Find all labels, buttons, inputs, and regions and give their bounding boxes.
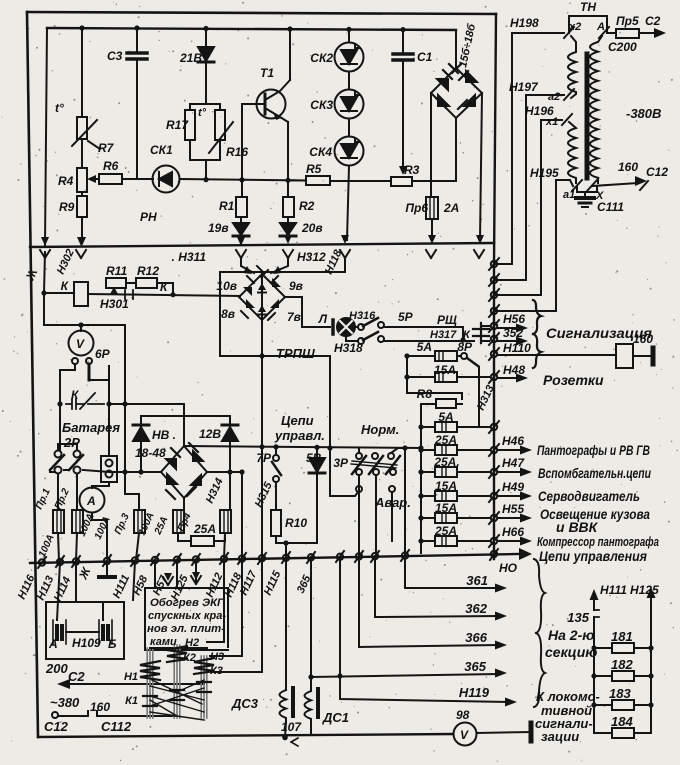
ТРПШ bridge diamond xyxy=(239,274,285,320)
wire H196 xyxy=(494,120,562,295)
lamp bar xyxy=(331,320,335,334)
svg-text:R2: R2 xyxy=(299,199,315,213)
svg-text:ками: ками xyxy=(150,636,177,648)
svg-text:25А: 25А xyxy=(434,433,457,447)
svg-text:СК2: СК2 xyxy=(310,51,333,65)
svg-text:Н301: Н301 xyxy=(100,297,129,311)
svg-text:Т1: Т1 xyxy=(260,66,274,80)
svg-text:Н195: Н195 xyxy=(530,166,559,180)
diode 20B xyxy=(287,217,289,223)
svg-text:Н3: Н3 xyxy=(210,651,224,663)
svg-text:5А: 5А xyxy=(438,410,453,424)
thyristor CK4 xyxy=(335,137,364,166)
svg-text:15А: 15А xyxy=(434,363,456,377)
svg-text:А: А xyxy=(48,637,58,651)
switch 6P below voltmeter xyxy=(72,358,78,364)
svg-text:Пр6: Пр6 xyxy=(405,201,428,215)
brace На 2-ю секцию xyxy=(534,559,545,707)
transformer TH left winding x2-a2 xyxy=(568,36,576,98)
arrow head Цепи управления xyxy=(519,548,532,560)
fuse Пр2 xyxy=(72,510,83,533)
wire HB right vertex row xyxy=(207,471,242,473)
svg-text:15А: 15А xyxy=(435,479,457,493)
resistor R4 xyxy=(77,168,87,192)
switch H316 lower xyxy=(346,336,358,341)
heater box Обогрев xyxy=(145,588,228,650)
switch Норм bank xyxy=(356,453,362,459)
ammeter A xyxy=(92,482,109,488)
switch K battery xyxy=(66,393,104,409)
svg-text:С12: С12 xyxy=(44,719,69,734)
capacitor C3 xyxy=(136,28,138,51)
wire 361 row xyxy=(405,556,498,588)
svg-text:Норм.: Норм. xyxy=(361,422,399,437)
svg-text:15А: 15А xyxy=(435,501,457,515)
fuse 15A row5 xyxy=(421,517,435,519)
wire bridge right down xyxy=(480,93,482,240)
svg-text:Н56: Н56 xyxy=(503,312,525,326)
diode HB xyxy=(141,415,230,417)
wire H119 row xyxy=(340,557,508,702)
svg-text:Н49: Н49 xyxy=(502,480,524,494)
brace Сигнализация xyxy=(533,300,541,368)
fuse 25A row3 xyxy=(421,471,435,473)
terminal a1 xyxy=(572,180,582,191)
ground C111 xyxy=(576,196,594,200)
svg-text:V: V xyxy=(76,337,85,351)
wire R6 to CK1 xyxy=(122,178,153,180)
svg-text:25А.: 25А. xyxy=(433,455,459,469)
resistor R7 thermistor xyxy=(77,117,87,139)
terminal C12 xyxy=(52,712,58,718)
svg-text:С200: С200 xyxy=(608,40,637,54)
svg-text:6Р: 6Р xyxy=(95,347,111,361)
svg-text:R11: R11 xyxy=(106,264,127,278)
svg-text:К1: К1 xyxy=(125,695,138,707)
wire H112 drop xyxy=(207,559,224,642)
svg-text:98: 98 xyxy=(456,708,470,722)
fuse 25A horizontal xyxy=(191,536,214,546)
svg-text:R16: R16 xyxy=(226,145,248,159)
wire K row to HB box xyxy=(109,404,184,416)
wire block top xyxy=(47,28,456,30)
svg-text:R3: R3 xyxy=(404,163,420,177)
fuse Пр1 xyxy=(53,510,64,533)
resistor R12 xyxy=(136,278,157,288)
winding bar K3 xyxy=(201,656,207,718)
svg-text:5В: 5В xyxy=(306,451,322,465)
wire frame left (Ж) xyxy=(27,12,38,737)
svg-text:R8: R8 xyxy=(417,387,433,401)
svg-text:182: 182 xyxy=(611,657,633,672)
resistor 181 xyxy=(594,647,651,649)
resistor ladder verticals H111 H125 xyxy=(594,595,651,733)
wire x407 down xyxy=(407,356,462,399)
Y connectors heater xyxy=(163,576,201,585)
svg-text:Н317: Н317 xyxy=(430,329,457,341)
ground Ж at bus xyxy=(106,561,108,576)
lamp Л signal xyxy=(337,318,355,336)
connector slashes on main bottom bus xyxy=(38,549,498,568)
bridge rectifier PH diamond xyxy=(431,68,482,118)
svg-text:С12: С12 xyxy=(646,165,668,179)
wire frame top xyxy=(27,12,496,14)
svg-text:R5: R5 xyxy=(306,162,322,176)
svg-text:5Р: 5Р xyxy=(398,310,414,324)
svg-text:9в: 9в xyxy=(289,279,303,293)
coupling crossing lines xyxy=(150,680,204,720)
svg-text:R7: R7 xyxy=(98,141,115,155)
svg-text:2Р: 2Р xyxy=(63,435,80,450)
coil ДС1 xyxy=(305,691,312,723)
svg-text:Н198: Н198 xyxy=(510,16,539,30)
wires CK chain xyxy=(347,29,349,240)
box 160 xyxy=(616,344,633,368)
svg-text:и ВВК: и ВВК xyxy=(556,519,599,535)
svg-text:х2: х2 xyxy=(568,21,581,33)
bridge diodes xyxy=(437,71,477,106)
svg-text:366: 366 xyxy=(465,630,487,645)
diode 12B xyxy=(222,427,238,441)
transistor T1 xyxy=(257,90,286,119)
svg-text:ДС3: ДС3 xyxy=(231,696,259,711)
coil ДС3 xyxy=(280,690,287,722)
wire block left xyxy=(45,28,47,245)
svg-text:Н47: Н47 xyxy=(502,456,525,470)
wire bridge bottom to R3 xyxy=(455,118,457,181)
resistor R11 potentiometer xyxy=(106,278,126,288)
arrows H46 H47 H49 H55 H66 xyxy=(498,449,523,451)
svg-text:К2: К2 xyxy=(183,652,196,664)
svg-text:Н312: Н312 xyxy=(297,250,326,264)
voltmeter V bottom xyxy=(454,723,477,746)
svg-text:365: 365 xyxy=(464,659,486,674)
wire HB bottom vertex xyxy=(183,498,185,511)
arrow wiper into R4 xyxy=(91,178,99,180)
arrow C2 xyxy=(66,683,204,685)
wire ТРПШ left loop xyxy=(220,258,345,356)
fuse 15A row4 xyxy=(421,495,435,497)
winding bar K2 xyxy=(174,645,180,718)
R17 R16 parallel pair xyxy=(190,104,220,180)
svg-text:СК4: СК4 xyxy=(309,145,332,159)
wire T1 collector xyxy=(289,29,291,80)
svg-text:~380: ~380 xyxy=(50,695,80,710)
resistor 183 xyxy=(594,704,651,706)
wire bus H313 right xyxy=(494,14,496,559)
svg-text:. Н311: . Н311 xyxy=(172,250,207,264)
svg-text:Н316: Н316 xyxy=(349,310,376,322)
diode 19B xyxy=(240,217,242,223)
battery box xyxy=(46,602,124,659)
svg-text:361: 361 xyxy=(466,573,488,588)
svg-text:160: 160 xyxy=(633,332,653,346)
svg-text:Н66: Н66 xyxy=(502,525,524,539)
fuse 5A row1 xyxy=(421,426,435,428)
wires into battery box xyxy=(57,561,103,620)
wire CK1 right xyxy=(180,179,307,181)
svg-text:а2: а2 xyxy=(548,91,560,103)
terminal bar end xyxy=(529,723,534,741)
fuse Пр5 xyxy=(607,32,616,34)
svg-text:Л: Л xyxy=(318,312,328,326)
transformer TH terminal box xyxy=(569,16,607,33)
svg-text:х1: х1 xyxy=(545,116,558,128)
svg-text:R1: R1 xyxy=(219,199,235,213)
svg-text:Н119: Н119 xyxy=(459,685,490,700)
labels heater box xyxy=(147,597,226,648)
svg-text:спускных кра-: спускных кра- xyxy=(148,610,226,622)
svg-text:С1: С1 xyxy=(417,50,433,64)
svg-text:25А: 25А xyxy=(193,522,216,536)
wire bridge left to fuse xyxy=(430,93,432,197)
svg-text:160: 160 xyxy=(618,160,638,174)
resistor R10 xyxy=(271,510,281,536)
switch Авар contacts xyxy=(356,486,362,492)
svg-text:К локомо-: К локомо- xyxy=(536,689,600,704)
resistor R9 xyxy=(81,192,83,196)
svg-text:-380В: -380В xyxy=(626,106,661,121)
svg-text:5А: 5А xyxy=(417,340,432,354)
svg-text:ТРПШ: ТРПШ xyxy=(276,346,315,361)
wire HB left vertex row xyxy=(110,471,161,473)
wire R9 down arrow xyxy=(81,217,83,240)
wire ТРПШ right to lamp xyxy=(285,297,330,327)
svg-text:Розетки: Розетки xyxy=(543,372,604,388)
svg-text:20в: 20в xyxy=(301,221,323,235)
svg-text:R12: R12 xyxy=(137,264,159,278)
svg-text:управл.: управл. xyxy=(274,428,325,443)
svg-text:Н109: Н109 xyxy=(72,636,101,650)
svg-text:Обогрев ЭКГ: Обогрев ЭКГ xyxy=(150,597,225,609)
terminal a2 xyxy=(564,89,574,100)
connector H301 xyxy=(120,290,138,299)
svg-text:Пантографы и РВ ГВ: Пантографы и РВ ГВ xyxy=(537,442,650,458)
svg-text:РН: РН xyxy=(140,210,157,224)
switch H316 upper xyxy=(355,326,358,328)
svg-text:Н1: Н1 xyxy=(124,671,138,683)
wire a1-X bottom to ground xyxy=(577,186,597,197)
svg-text:С2: С2 xyxy=(645,14,661,28)
svg-text:РЩ: РЩ xyxy=(437,313,457,327)
svg-text:184: 184 xyxy=(611,714,633,729)
svg-text:Компрессор пантографа: Компрессор пантографа xyxy=(537,534,659,549)
resistor 182 xyxy=(594,675,651,677)
svg-text:362: 362 xyxy=(465,601,487,616)
svg-text:НВ .: НВ . xyxy=(152,428,176,442)
svg-text:7Р: 7Р xyxy=(256,451,272,465)
svg-text:R9: R9 xyxy=(59,200,75,214)
svg-text:ТН: ТН xyxy=(580,0,596,14)
svg-text:зации: зации xyxy=(541,729,579,744)
svg-text:С112: С112 xyxy=(101,719,132,734)
terminal x2 xyxy=(564,27,574,38)
svg-text:Н318: Н318 xyxy=(334,341,363,355)
winding taps ticks xyxy=(143,682,211,706)
wire H1 top xyxy=(150,647,207,649)
svg-text:А: А xyxy=(86,494,96,508)
terminal x1 xyxy=(562,114,572,125)
node dots top wire xyxy=(79,25,405,32)
wire ДС1 feed xyxy=(310,557,312,691)
svg-text:183: 183 xyxy=(609,686,631,701)
wire T1 emitter to R2 xyxy=(287,122,289,197)
resistor R6 xyxy=(99,174,122,184)
svg-text:нов эл. плит-: нов эл. плит- xyxy=(147,623,225,635)
knife switch 2P-1 xyxy=(55,451,62,458)
svg-text:Н111: Н111 xyxy=(600,583,627,597)
coil K2 xyxy=(167,646,187,662)
fuse 15A Розетки row xyxy=(407,376,435,378)
arrow H56 xyxy=(498,327,519,329)
wire bottom right xyxy=(477,732,531,733)
capacitor C1 xyxy=(402,30,404,52)
svg-text:С2: С2 xyxy=(68,669,85,684)
wire T1 base xyxy=(242,104,265,180)
thyristor CK2 xyxy=(335,43,364,72)
svg-text:160: 160 xyxy=(90,700,110,714)
terminal A xyxy=(599,27,609,38)
connector slashes on bus H313 xyxy=(489,258,499,547)
bridge HB diamond xyxy=(161,446,207,498)
wire R7 to R4 xyxy=(81,139,83,168)
svg-text:Цепи управления: Цепи управления xyxy=(539,548,647,564)
wire to voltmeter xyxy=(80,325,82,331)
ТРПШ input wires from H311 H312 xyxy=(241,258,288,273)
arrow 352 xyxy=(498,340,519,342)
svg-text:10в: 10в xyxy=(216,279,237,293)
svg-text:18-48: 18-48 xyxy=(135,446,166,460)
svg-text:7в: 7в xyxy=(287,310,301,324)
resistor R17 xyxy=(185,110,195,140)
wire H118 drop xyxy=(210,559,242,656)
svg-text:ДС1: ДС1 xyxy=(322,710,349,725)
terminal X xyxy=(587,180,597,191)
wire K branch left xyxy=(44,252,125,325)
svg-text:СК3: СК3 xyxy=(310,98,333,112)
winding bar H1-K1 xyxy=(147,648,153,718)
voltmeter V xyxy=(69,331,94,356)
diode 5B xyxy=(316,448,318,458)
svg-text:107: 107 xyxy=(281,720,302,734)
wire H110 row to 160 xyxy=(407,355,435,357)
svg-text:К3: К3 xyxy=(210,665,223,677)
coil H1 xyxy=(140,661,160,680)
battery cells H109 xyxy=(53,620,66,644)
Y connector heater right xyxy=(195,560,197,581)
svg-text:Б: Б xyxy=(108,637,117,651)
fuse H314 column xyxy=(220,510,231,533)
svg-text:25А: 25А xyxy=(434,524,457,538)
svg-text:На 2-ю: На 2-ю xyxy=(548,627,594,643)
fuse 25A row2 xyxy=(421,449,435,451)
svg-text:А: А xyxy=(596,21,605,33)
svg-text:t°: t° xyxy=(198,107,207,119)
svg-text:135: 135 xyxy=(567,610,589,625)
wire ДС3 feed xyxy=(285,558,287,690)
svg-text:21В: 21В xyxy=(179,51,202,65)
svg-text:Вспомбгательн.цепи: Вспомбгательн.цепи xyxy=(538,465,651,481)
wire x327 xyxy=(330,356,358,496)
fuse Пр3 xyxy=(134,510,145,533)
svg-text:Цепи: Цепи xyxy=(281,413,314,428)
svg-text:200: 200 xyxy=(45,661,68,676)
svg-text:а1: а1 xyxy=(563,189,575,201)
resistor R8 xyxy=(436,399,456,408)
fuse Пр4 25A xyxy=(173,510,184,533)
resistor R3 xyxy=(391,177,412,186)
transformer TH left winding x1-a1 xyxy=(568,122,576,183)
thyristor CK3 xyxy=(335,90,364,119)
svg-text:8Р: 8Р xyxy=(457,340,473,354)
svg-text:R4: R4 xyxy=(58,174,74,188)
svg-text:12В: 12В xyxy=(199,427,221,441)
switch 7P xyxy=(275,448,277,455)
svg-text:Н110: Н110 xyxy=(503,341,531,355)
svg-text:V: V xyxy=(460,728,469,742)
svg-text:Н46: Н46 xyxy=(502,434,524,448)
wire H195 xyxy=(494,180,573,311)
fuse Пр6 2A xyxy=(426,197,438,219)
svg-text:2А: 2А xyxy=(443,201,459,215)
wire 366 row xyxy=(359,557,498,647)
svg-text:Н48: Н48 xyxy=(503,363,525,377)
wire fuse bottom loop xyxy=(420,541,422,553)
svg-text:секцию: секцию xyxy=(545,644,597,660)
svg-text:Н197: Н197 xyxy=(509,80,539,94)
svg-text:R6: R6 xyxy=(103,159,119,173)
wire ТРПШ bottom down xyxy=(261,320,263,558)
svg-text:R17: R17 xyxy=(166,118,189,132)
wire fuse feed vertical xyxy=(420,404,422,553)
wire H198 xyxy=(494,33,564,264)
wire main bottom bus xyxy=(30,554,519,563)
resistor 184 xyxy=(594,732,651,734)
svg-text:352: 352 xyxy=(503,326,523,340)
thyristor CK1 xyxy=(153,166,180,193)
resistor R2 xyxy=(283,197,294,217)
svg-text:С111: С111 xyxy=(597,200,624,214)
wire battery to HB xyxy=(50,470,110,472)
knife switch 2P-2 xyxy=(74,451,81,458)
transformer TH core xyxy=(585,54,590,178)
wire H111 drop xyxy=(133,561,135,600)
svg-text:Н125: Н125 xyxy=(630,583,659,597)
coil K3 xyxy=(194,658,214,674)
svg-text:t°: t° xyxy=(55,101,64,115)
labels bus wires rotated xyxy=(16,564,314,603)
resistor R16 xyxy=(215,110,225,140)
resistor R1 xyxy=(241,180,243,197)
wire 365 row xyxy=(311,674,498,677)
svg-text:19в: 19в xyxy=(208,221,229,235)
wire R7 branch xyxy=(81,28,83,117)
svg-text:Серводвигатель: Серводвигатель xyxy=(538,488,640,504)
svg-text:Авар.: Авар. xyxy=(374,495,411,510)
wire 160 C12 arrow xyxy=(592,183,638,186)
transformer TH right winding A-X xyxy=(590,36,602,183)
wire x242 xyxy=(241,472,243,558)
wire x125 down xyxy=(125,325,139,510)
wire H117 drop xyxy=(212,558,262,672)
svg-text:R10: R10 xyxy=(285,516,307,530)
resistor R5 xyxy=(288,179,306,181)
wire H197 xyxy=(494,95,564,280)
svg-text:Н2: Н2 xyxy=(185,637,199,649)
svg-text:СК1: СК1 xyxy=(150,143,173,157)
svg-text:8в: 8в xyxy=(221,307,235,321)
svg-text:3Р: 3Р xyxy=(333,456,349,470)
